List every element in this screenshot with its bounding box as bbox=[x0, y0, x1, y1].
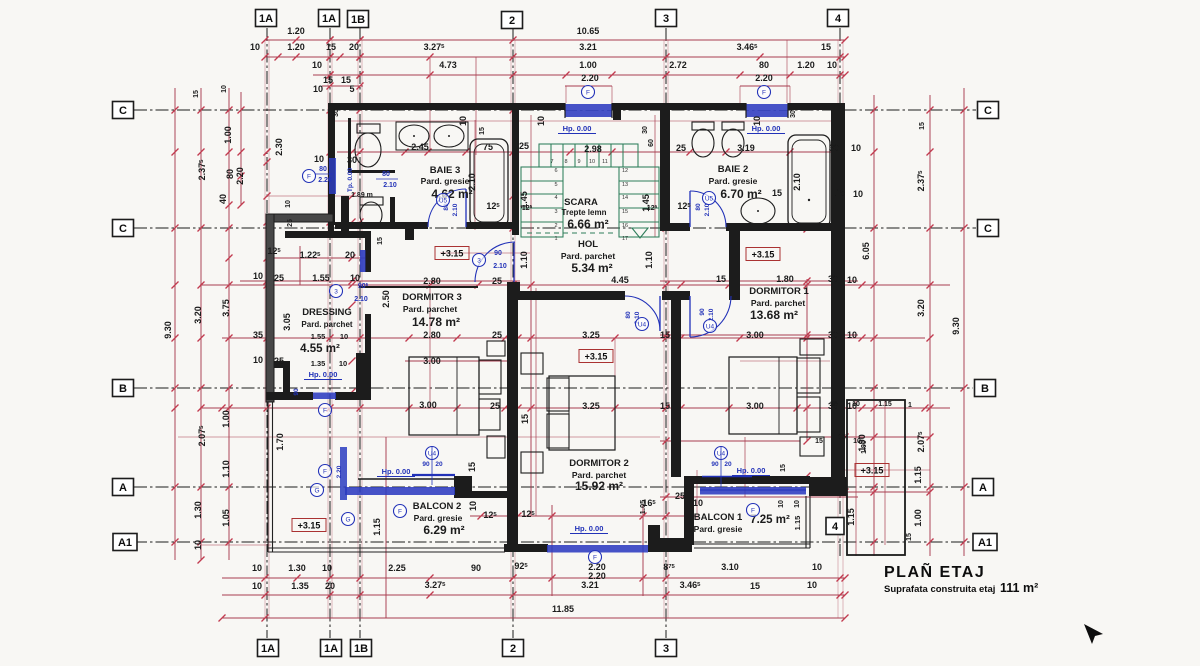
svg-text:Hp. 0.00: Hp. 0.00 bbox=[752, 124, 781, 133]
svg-text:111 m²: 111 m² bbox=[1000, 581, 1038, 595]
wall: left exterior gray (dressing) bbox=[266, 214, 274, 402]
blue F circle bottom bbox=[589, 551, 602, 564]
svg-text:3: 3 bbox=[663, 643, 669, 655]
door: baie2 (U5) bbox=[690, 191, 726, 227]
svg-text:20: 20 bbox=[724, 461, 732, 468]
svg-text:1A: 1A bbox=[322, 13, 336, 25]
svg-text:10: 10 bbox=[847, 401, 857, 411]
svg-text:BALCON 1: BALCON 1 bbox=[694, 512, 743, 523]
svg-text:1: 1 bbox=[554, 236, 557, 242]
svg-text:2.10: 2.10 bbox=[383, 182, 397, 189]
svg-text:5: 5 bbox=[554, 182, 557, 188]
svg-text:10: 10 bbox=[313, 84, 323, 94]
svg-text:Suprafata construita etaj: Suprafata construita etaj bbox=[884, 584, 995, 595]
svg-text:90: 90 bbox=[494, 250, 502, 257]
window: balcon1 north band bbox=[700, 487, 806, 495]
svg-text:A: A bbox=[119, 482, 127, 494]
svg-text:1.30: 1.30 bbox=[193, 501, 203, 519]
svg-text:15: 15 bbox=[919, 122, 926, 130]
svg-text:+3.15: +3.15 bbox=[298, 520, 321, 530]
svg-text:13: 13 bbox=[622, 182, 628, 188]
svg-text:15: 15 bbox=[780, 464, 787, 472]
svg-text:1.20: 1.20 bbox=[287, 42, 305, 52]
svg-text:Pard. gresie: Pard. gresie bbox=[709, 176, 758, 186]
svg-text:15: 15 bbox=[750, 581, 760, 591]
level box +3.15 dormitor3 area bbox=[435, 247, 469, 260]
svg-text:15: 15 bbox=[821, 42, 831, 52]
baie3 bathtub bbox=[470, 139, 508, 227]
dormitor3 bed bbox=[409, 357, 479, 435]
svg-text:+3.15: +3.15 bbox=[861, 465, 884, 475]
svg-text:1.80: 1.80 bbox=[776, 274, 794, 284]
svg-text:U4: U4 bbox=[706, 323, 715, 330]
axis box 4 interior bbox=[826, 518, 844, 535]
svg-text:30: 30 bbox=[828, 330, 838, 340]
svg-text:10: 10 bbox=[221, 85, 228, 93]
window: top wall left (scara) bbox=[565, 103, 612, 110]
wall: dormitor2 south-east corner bbox=[648, 525, 660, 552]
svg-text:90: 90 bbox=[711, 461, 719, 468]
axis box A1 left bbox=[113, 534, 137, 551]
svg-text:1.00: 1.00 bbox=[913, 509, 923, 527]
svg-text:2.25: 2.25 bbox=[388, 563, 406, 573]
svg-text:1.15: 1.15 bbox=[793, 516, 802, 531]
svg-text:10: 10 bbox=[312, 60, 322, 70]
wall: dormitor2 south-west corner bbox=[454, 476, 472, 498]
svg-text:1.15: 1.15 bbox=[846, 508, 856, 526]
axis box 3 top bbox=[656, 10, 677, 27]
balcon2 north edge thin bbox=[358, 478, 455, 480]
svg-text:15: 15 bbox=[193, 90, 200, 98]
baie3 toilet bbox=[357, 124, 380, 133]
svg-text:10: 10 bbox=[468, 501, 478, 511]
door: dormitor2 (U4) bbox=[625, 296, 660, 331]
svg-text:25: 25 bbox=[675, 491, 685, 501]
svg-text:15: 15 bbox=[716, 274, 726, 284]
svg-text:6.66 m²: 6.66 m² bbox=[567, 217, 608, 231]
svg-text:3.05: 3.05 bbox=[282, 313, 292, 331]
svg-text:3: 3 bbox=[477, 257, 481, 264]
svg-text:1.15: 1.15 bbox=[372, 518, 382, 536]
window: top wall right (baie2) bbox=[746, 103, 788, 110]
svg-text:1: 1 bbox=[908, 402, 912, 409]
svg-text:2.20: 2.20 bbox=[581, 73, 599, 83]
svg-text:A1: A1 bbox=[978, 537, 992, 549]
svg-text:4.73: 4.73 bbox=[439, 60, 457, 70]
svg-text:3.00: 3.00 bbox=[746, 330, 764, 340]
svg-text:10: 10 bbox=[812, 562, 822, 572]
svg-text:7: 7 bbox=[550, 159, 553, 165]
svg-text:9.30: 9.30 bbox=[163, 321, 173, 339]
svg-text:2.30: 2.30 bbox=[274, 138, 284, 156]
svg-text:4: 4 bbox=[832, 521, 839, 533]
svg-text:1A: 1A bbox=[324, 643, 338, 655]
svg-text:30: 30 bbox=[829, 143, 839, 153]
svg-text:1.35: 1.35 bbox=[311, 359, 326, 368]
svg-text:25: 25 bbox=[490, 401, 500, 411]
wall: dressing north interior bbox=[285, 231, 371, 238]
svg-text:15: 15 bbox=[660, 330, 670, 340]
svg-text:+3.15: +3.15 bbox=[585, 351, 608, 361]
svg-text:8: 8 bbox=[564, 159, 567, 165]
svg-text:10: 10 bbox=[285, 200, 292, 208]
axis box 2 top bbox=[502, 12, 523, 29]
svg-text:6.70 m²: 6.70 m² bbox=[720, 187, 761, 201]
axis box 1A top-2 bbox=[319, 10, 340, 27]
svg-text:15: 15 bbox=[479, 127, 486, 135]
svg-text:15: 15 bbox=[520, 414, 530, 424]
axis box C right-1 bbox=[978, 102, 999, 119]
svg-text:25: 25 bbox=[274, 356, 284, 366]
axis box 1B bottom bbox=[351, 640, 372, 657]
svg-text:3.25: 3.25 bbox=[582, 401, 600, 411]
stairs walk line bbox=[527, 232, 614, 234]
svg-text:F: F bbox=[762, 89, 766, 96]
svg-text:2.50: 2.50 bbox=[381, 290, 391, 308]
axis box A1 right bbox=[973, 534, 997, 551]
svg-text:90: 90 bbox=[471, 563, 481, 573]
svg-text:10: 10 bbox=[778, 500, 785, 508]
svg-text:14: 14 bbox=[622, 195, 628, 201]
svg-text:15: 15 bbox=[835, 188, 845, 198]
red dimension line network bbox=[175, 40, 964, 618]
wall: baie3/scara divider bbox=[512, 110, 519, 235]
svg-text:1.00: 1.00 bbox=[579, 60, 597, 70]
svg-text:DRESSING: DRESSING bbox=[302, 307, 352, 318]
svg-text:6.29 m²: 6.29 m² bbox=[423, 523, 464, 537]
axis box C left-2 bbox=[113, 220, 134, 237]
svg-text:Pard. parchet: Pard. parchet bbox=[561, 251, 615, 261]
svg-text:2.10: 2.10 bbox=[792, 173, 802, 191]
svg-text:30: 30 bbox=[642, 126, 649, 134]
axis box 2 bottom bbox=[503, 640, 524, 657]
wall: top-left exterior vertical bbox=[328, 103, 335, 225]
axis box 1A bottom-left bbox=[258, 640, 279, 657]
svg-text:25: 25 bbox=[676, 143, 686, 153]
axis box 3 bottom bbox=[656, 640, 677, 657]
svg-text:1.20: 1.20 bbox=[287, 26, 305, 36]
svg-text:10: 10 bbox=[794, 500, 801, 508]
svg-text:Pard. gresie: Pard. gresie bbox=[421, 176, 470, 186]
svg-text:3: 3 bbox=[554, 209, 557, 215]
svg-text:G: G bbox=[314, 487, 319, 494]
svg-text:3: 3 bbox=[663, 13, 669, 25]
baie2 bathtub bbox=[788, 135, 830, 228]
svg-text:Hp. 0.00: Hp. 0.00 bbox=[382, 467, 411, 476]
svg-text:4.55 m²: 4.55 m² bbox=[300, 343, 340, 355]
svg-text:2.20: 2.20 bbox=[336, 465, 343, 478]
svg-text:10: 10 bbox=[536, 116, 546, 126]
door: baie3 (U5) bbox=[428, 189, 466, 227]
red tick marks bbox=[172, 37, 968, 622]
wall: top stub near axis2 bbox=[613, 103, 621, 120]
svg-text:BALCON 2: BALCON 2 bbox=[413, 501, 462, 512]
svg-text:20: 20 bbox=[325, 581, 335, 591]
svg-text:DORMITOR 1: DORMITOR 1 bbox=[749, 286, 809, 297]
svg-text:10: 10 bbox=[252, 563, 262, 573]
axis grid dash-dot lines bbox=[134, 28, 976, 638]
svg-text:3.00: 3.00 bbox=[423, 356, 441, 366]
wall: dormitor3 north thin bbox=[359, 286, 478, 288]
svg-text:16: 16 bbox=[622, 223, 628, 229]
svg-text:90: 90 bbox=[293, 388, 300, 396]
window: balcon2 band bbox=[345, 487, 455, 495]
svg-text:80: 80 bbox=[695, 203, 702, 211]
svg-text:F: F bbox=[586, 89, 590, 96]
svg-text:2.20: 2.20 bbox=[318, 177, 332, 184]
wall: balcon1 west bbox=[684, 476, 694, 545]
svg-text:10: 10 bbox=[693, 498, 703, 508]
svg-text:10: 10 bbox=[339, 359, 347, 368]
axis box A right bbox=[973, 479, 994, 496]
svg-text:30: 30 bbox=[828, 274, 838, 284]
window F circles top bbox=[582, 86, 595, 99]
svg-text:14.78 m²: 14.78 m² bbox=[412, 315, 460, 329]
svg-text:20: 20 bbox=[435, 461, 443, 468]
svg-text:3: 3 bbox=[334, 288, 338, 295]
wall: top exterior bbox=[328, 103, 845, 110]
svg-text:F: F bbox=[307, 173, 311, 180]
svg-text:6.05: 6.05 bbox=[861, 242, 871, 260]
svg-text:10: 10 bbox=[253, 355, 263, 365]
svg-text:80: 80 bbox=[759, 60, 769, 70]
level box +3.15 center bbox=[579, 350, 613, 363]
svg-text:1.90: 1.90 bbox=[861, 440, 868, 454]
dormitor2 nightstands bbox=[521, 353, 543, 374]
axis box 1A bottom-2 bbox=[321, 640, 342, 657]
svg-text:U5: U5 bbox=[439, 197, 448, 204]
svg-text:10: 10 bbox=[853, 438, 861, 445]
svg-text:6: 6 bbox=[554, 168, 557, 174]
svg-text:Tp. 0.00: Tp. 0.00 bbox=[347, 168, 354, 193]
svg-text:20: 20 bbox=[345, 250, 355, 260]
svg-text:2.45: 2.45 bbox=[411, 142, 429, 152]
stairs scara outline bbox=[521, 144, 659, 237]
svg-text:1.15: 1.15 bbox=[878, 401, 892, 408]
svg-text:F: F bbox=[323, 407, 327, 414]
svg-text:15.92 m²: 15.92 m² bbox=[575, 479, 623, 493]
svg-text:1.05: 1.05 bbox=[221, 509, 231, 527]
svg-text:C: C bbox=[984, 105, 992, 117]
door: dormitor3 from hol bbox=[475, 242, 515, 282]
svg-text:90: 90 bbox=[699, 308, 706, 316]
svg-text:80: 80 bbox=[382, 171, 390, 178]
svg-text:3.21: 3.21 bbox=[579, 42, 597, 52]
svg-text:10: 10 bbox=[847, 330, 857, 340]
svg-text:SCARA: SCARA bbox=[564, 197, 598, 208]
axis box C right-2 bbox=[978, 220, 999, 237]
svg-text:10: 10 bbox=[322, 563, 332, 573]
svg-text:2.20: 2.20 bbox=[235, 167, 245, 185]
wall: hol south run bbox=[508, 282, 520, 300]
baie2 toilet 1 bbox=[692, 122, 714, 130]
blue leader lines bbox=[431, 446, 433, 485]
wall: dormitor2 south bbox=[504, 544, 548, 552]
wall: wc partition vertical bbox=[348, 118, 351, 172]
svg-text:10: 10 bbox=[314, 154, 324, 164]
svg-text:C: C bbox=[984, 223, 992, 235]
svg-text:17: 17 bbox=[622, 236, 628, 242]
svg-text:3.19: 3.19 bbox=[737, 143, 755, 153]
window: balcon2 upper blue line bbox=[412, 474, 455, 476]
svg-text:10: 10 bbox=[851, 143, 861, 153]
dormitor1 bed bbox=[729, 357, 797, 434]
svg-text:Pard. gresie: Pard. gresie bbox=[414, 513, 463, 523]
svg-text:2.20: 2.20 bbox=[588, 571, 606, 581]
axis box 1B top bbox=[348, 11, 369, 28]
svg-text:C: C bbox=[119, 223, 127, 235]
svg-text:15: 15 bbox=[326, 42, 336, 52]
svg-text:11.85: 11.85 bbox=[552, 604, 574, 614]
svg-text:3.00: 3.00 bbox=[419, 400, 437, 410]
wall: baie3 south jog bbox=[405, 222, 414, 240]
svg-text:30: 30 bbox=[333, 109, 340, 117]
svg-text:1.20: 1.20 bbox=[797, 60, 815, 70]
svg-text:HOL: HOL bbox=[578, 239, 598, 250]
svg-text:G: G bbox=[345, 516, 350, 523]
svg-text:F: F bbox=[751, 507, 755, 514]
axis box A left bbox=[113, 479, 134, 496]
svg-text:1.55: 1.55 bbox=[312, 273, 330, 283]
svg-text:10: 10 bbox=[853, 189, 863, 199]
door: balcon2 blue leaf bbox=[340, 447, 347, 500]
level box +3.15 balcon2 bbox=[292, 519, 326, 532]
svg-text:15: 15 bbox=[838, 434, 846, 441]
baie2 sink bbox=[741, 198, 775, 224]
svg-text:15: 15 bbox=[467, 462, 477, 472]
svg-text:1.10: 1.10 bbox=[519, 251, 529, 269]
svg-text:2: 2 bbox=[510, 643, 516, 655]
svg-text:PLAÑ ETAJ: PLAÑ ETAJ bbox=[884, 561, 985, 581]
svg-text:3.20: 3.20 bbox=[193, 306, 203, 324]
svg-text:5: 5 bbox=[349, 84, 354, 94]
svg-text:4: 4 bbox=[554, 195, 557, 201]
svg-text:10: 10 bbox=[253, 271, 263, 281]
svg-text:+3.15: +3.15 bbox=[441, 248, 464, 258]
door leaf: dressing blue bar bbox=[360, 250, 366, 272]
svg-text:2.10: 2.10 bbox=[452, 203, 459, 216]
svg-text:11: 11 bbox=[602, 159, 608, 165]
baie3 double sink counter bbox=[396, 122, 468, 150]
svg-text:80: 80 bbox=[319, 166, 327, 173]
svg-text:U5: U5 bbox=[705, 195, 714, 202]
level box +3.15 dormitor1 area bbox=[746, 248, 780, 261]
svg-text:BAIE 3: BAIE 3 bbox=[430, 165, 461, 176]
svg-text:30: 30 bbox=[347, 155, 357, 165]
svg-text:1.05: 1.05 bbox=[638, 500, 647, 515]
svg-text:1.00: 1.00 bbox=[221, 410, 231, 428]
wc toilet bbox=[360, 197, 383, 205]
axis box B right bbox=[975, 380, 996, 397]
svg-text:3.75: 3.75 bbox=[221, 299, 231, 317]
svg-text:15: 15 bbox=[772, 188, 782, 198]
svg-text:2.80: 2.80 bbox=[423, 276, 441, 286]
svg-text:10: 10 bbox=[350, 273, 360, 283]
svg-text:15: 15 bbox=[660, 401, 670, 411]
balcon1 window blue marks bbox=[700, 489, 806, 491]
svg-text:5.34 m²: 5.34 m² bbox=[571, 261, 612, 275]
svg-text:3.10: 3.10 bbox=[721, 562, 739, 572]
svg-text:1A: 1A bbox=[261, 643, 275, 655]
wall: dressing south step bbox=[274, 361, 290, 368]
svg-text:2.10: 2.10 bbox=[467, 173, 477, 191]
svg-text:1.00: 1.00 bbox=[223, 126, 233, 144]
svg-text:Trepte lemn: Trepte lemn bbox=[562, 208, 607, 217]
balcon2 south railing double line bbox=[268, 547, 505, 549]
svg-text:10: 10 bbox=[847, 275, 857, 285]
svg-text:Pard. parchet: Pard. parchet bbox=[301, 320, 352, 329]
svg-text:2.72: 2.72 bbox=[669, 60, 687, 70]
svg-text:Pard. gresie: Pard. gresie bbox=[694, 524, 743, 534]
svg-text:10: 10 bbox=[807, 580, 817, 590]
svg-text:2: 2 bbox=[554, 223, 557, 229]
dormitor3 nightstands bbox=[487, 341, 505, 356]
svg-text:U4: U4 bbox=[638, 321, 647, 328]
svg-text:2.10: 2.10 bbox=[704, 203, 711, 216]
wall: dormitor3/dormitor2 divider bbox=[507, 282, 518, 552]
axis box 1A top-left bbox=[256, 10, 277, 27]
svg-text:15: 15 bbox=[323, 75, 333, 85]
baie2 toilet 2 bbox=[722, 122, 744, 130]
svg-text:1.15: 1.15 bbox=[913, 466, 923, 484]
svg-text:15: 15 bbox=[377, 237, 384, 245]
svg-text:B: B bbox=[119, 383, 127, 395]
svg-text:2.80: 2.80 bbox=[423, 330, 441, 340]
svg-text:DORMITOR 3: DORMITOR 3 bbox=[402, 292, 461, 303]
svg-text:3.20: 3.20 bbox=[916, 299, 926, 317]
svg-text:4.45: 4.45 bbox=[611, 275, 629, 285]
svg-text:F: F bbox=[593, 554, 597, 561]
svg-text:10: 10 bbox=[458, 116, 468, 126]
wall: dressing south with window bbox=[266, 392, 313, 400]
axis box 4 top bbox=[828, 10, 849, 27]
wall: dressing/dormitor3 foot bbox=[356, 353, 371, 400]
svg-text:80: 80 bbox=[225, 169, 235, 179]
wall: right exterior bbox=[831, 103, 845, 477]
window: left wall dressing-north bbox=[329, 158, 336, 194]
svg-text:10: 10 bbox=[340, 332, 348, 341]
wall: dressing/dormitor3 divider bbox=[365, 233, 371, 272]
wall: balcon1 north bbox=[694, 476, 810, 484]
balcon2 west railing double line bbox=[267, 402, 269, 552]
svg-text:2.10: 2.10 bbox=[354, 296, 368, 303]
svg-text:A: A bbox=[979, 482, 987, 494]
svg-text:10: 10 bbox=[827, 60, 837, 70]
svg-text:Hp. 0.00: Hp. 0.00 bbox=[737, 466, 766, 475]
svg-text:F: F bbox=[323, 468, 327, 475]
svg-text:1B: 1B bbox=[351, 14, 365, 26]
svg-text:1.10: 1.10 bbox=[644, 251, 654, 269]
svg-text:15: 15 bbox=[906, 533, 913, 541]
svg-text:Pard. parchet: Pard. parchet bbox=[403, 304, 457, 314]
svg-text:25: 25 bbox=[492, 330, 502, 340]
svg-text:3.00: 3.00 bbox=[746, 401, 764, 411]
mouse cursor arrow bbox=[1084, 624, 1103, 644]
svg-text:Hp. 0.00: Hp. 0.00 bbox=[563, 124, 592, 133]
svg-text:25: 25 bbox=[287, 219, 294, 227]
svg-text:40: 40 bbox=[218, 194, 228, 204]
svg-text:1.55: 1.55 bbox=[311, 332, 326, 341]
svg-text:3.21: 3.21 bbox=[581, 580, 599, 590]
svg-text:2.98: 2.98 bbox=[584, 144, 602, 154]
svg-text:15: 15 bbox=[622, 209, 628, 215]
svg-text:1.30: 1.30 bbox=[288, 563, 306, 573]
wall: balcon1 east railing bbox=[805, 496, 807, 548]
wall: scara/baie2 divider bbox=[660, 103, 670, 228]
svg-text:80: 80 bbox=[625, 311, 632, 319]
wall: balcon1 south railing bbox=[694, 543, 810, 545]
svg-text:10: 10 bbox=[252, 581, 262, 591]
